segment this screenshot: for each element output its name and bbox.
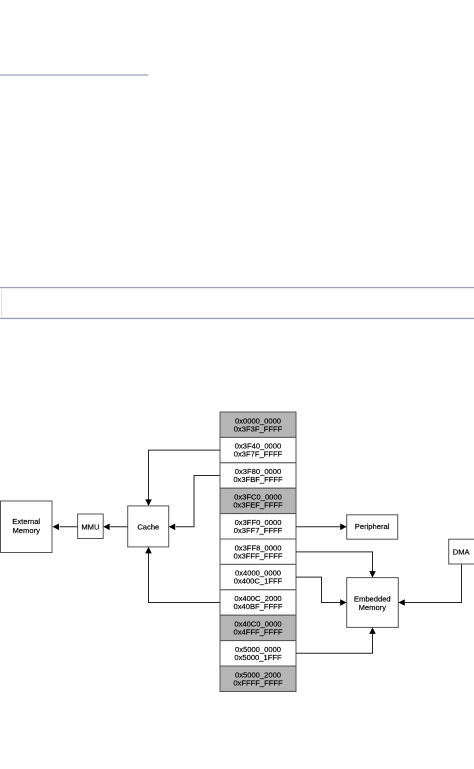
- svg-text:0x3F3F_FFFF: 0x3F3F_FFFF: [234, 424, 283, 433]
- memory row 0x3FF8_0000: [220, 539, 296, 564]
- memory row 0x5000_2000: [220, 666, 296, 691]
- svg-text:MMU: MMU: [81, 523, 99, 532]
- svg-text:Embedded: Embedded: [354, 594, 391, 603]
- wire row 0x400C_2000 to Cache bottom: [145, 547, 220, 603]
- memory row 0x4000_0000: [220, 564, 296, 589]
- svg-text:0x40BF_FFFF: 0x40BF_FFFF: [234, 602, 283, 611]
- block Cache: [128, 506, 169, 547]
- wire row 0x4000 to Embedded Memory left: [296, 577, 347, 606]
- svg-text:Memory: Memory: [359, 603, 387, 612]
- wire row 0x3FF0 to Peripheral: [296, 524, 347, 531]
- block External Memory: [1, 501, 53, 553]
- block DMA: [449, 539, 474, 564]
- table band: [0, 287, 474, 319]
- block Peripheral: [347, 515, 398, 539]
- memory row 0x3FF0_0000: [220, 514, 296, 539]
- svg-text:0x3FEF_FFFF: 0x3FEF_FFFF: [233, 501, 283, 510]
- wire row 0x3FF8 to Embedded Memory top: [296, 552, 376, 578]
- svg-text:External: External: [12, 517, 40, 526]
- memory map column outline: [220, 412, 296, 691]
- memory row 0x3FC0_0000: [220, 488, 296, 513]
- svg-text:0xFFFF_FFFF: 0xFFFF_FFFF: [233, 678, 283, 687]
- memory row 0x0000_0000: [220, 412, 296, 437]
- memory row 0x5000_0000: [220, 641, 296, 666]
- wire Cache to MMU: [103, 524, 128, 531]
- memory row 0x3F40_0000: [220, 437, 296, 462]
- memory row 0x3F80_0000: [220, 463, 296, 488]
- memory row 0x400C_2000: [220, 590, 296, 615]
- svg-text:Cache: Cache: [137, 523, 159, 532]
- svg-text:0x3FBF_FFFF: 0x3FBF_FFFF: [233, 475, 283, 484]
- wire row 0x3F80 to Cache right: [169, 476, 220, 531]
- svg-text:DMA: DMA: [453, 547, 471, 556]
- wire MMU to External Memory: [53, 524, 78, 531]
- svg-text:Peripheral: Peripheral: [355, 522, 390, 531]
- svg-text:0x3FFF_FFFF: 0x3FFF_FFFF: [234, 551, 283, 560]
- svg-text:0x5000_1FFF: 0x5000_1FFF: [234, 653, 282, 662]
- svg-text:Memory: Memory: [12, 526, 40, 535]
- svg-text:0x400C_1FFF: 0x400C_1FFF: [234, 577, 283, 586]
- wire row 0x3F40 to Cache top: [145, 450, 220, 506]
- block MMU: [78, 514, 104, 539]
- memory row 0x40C0_0000: [220, 615, 296, 640]
- wire row 0x5000_0000 to Embedded Memory bottom: [296, 627, 376, 653]
- block Embedded Memory: [347, 578, 399, 628]
- svg-text:0x4FFF_FFFF: 0x4FFF_FFFF: [234, 628, 283, 637]
- svg-text:0x3FF7_FFFF: 0x3FF7_FFFF: [234, 526, 283, 535]
- svg-text:0x3F7F_FFFF: 0x3F7F_FFFF: [234, 450, 283, 459]
- header rule: [0, 74, 149, 75]
- wire DMA to Embedded Memory right: [398, 564, 461, 606]
